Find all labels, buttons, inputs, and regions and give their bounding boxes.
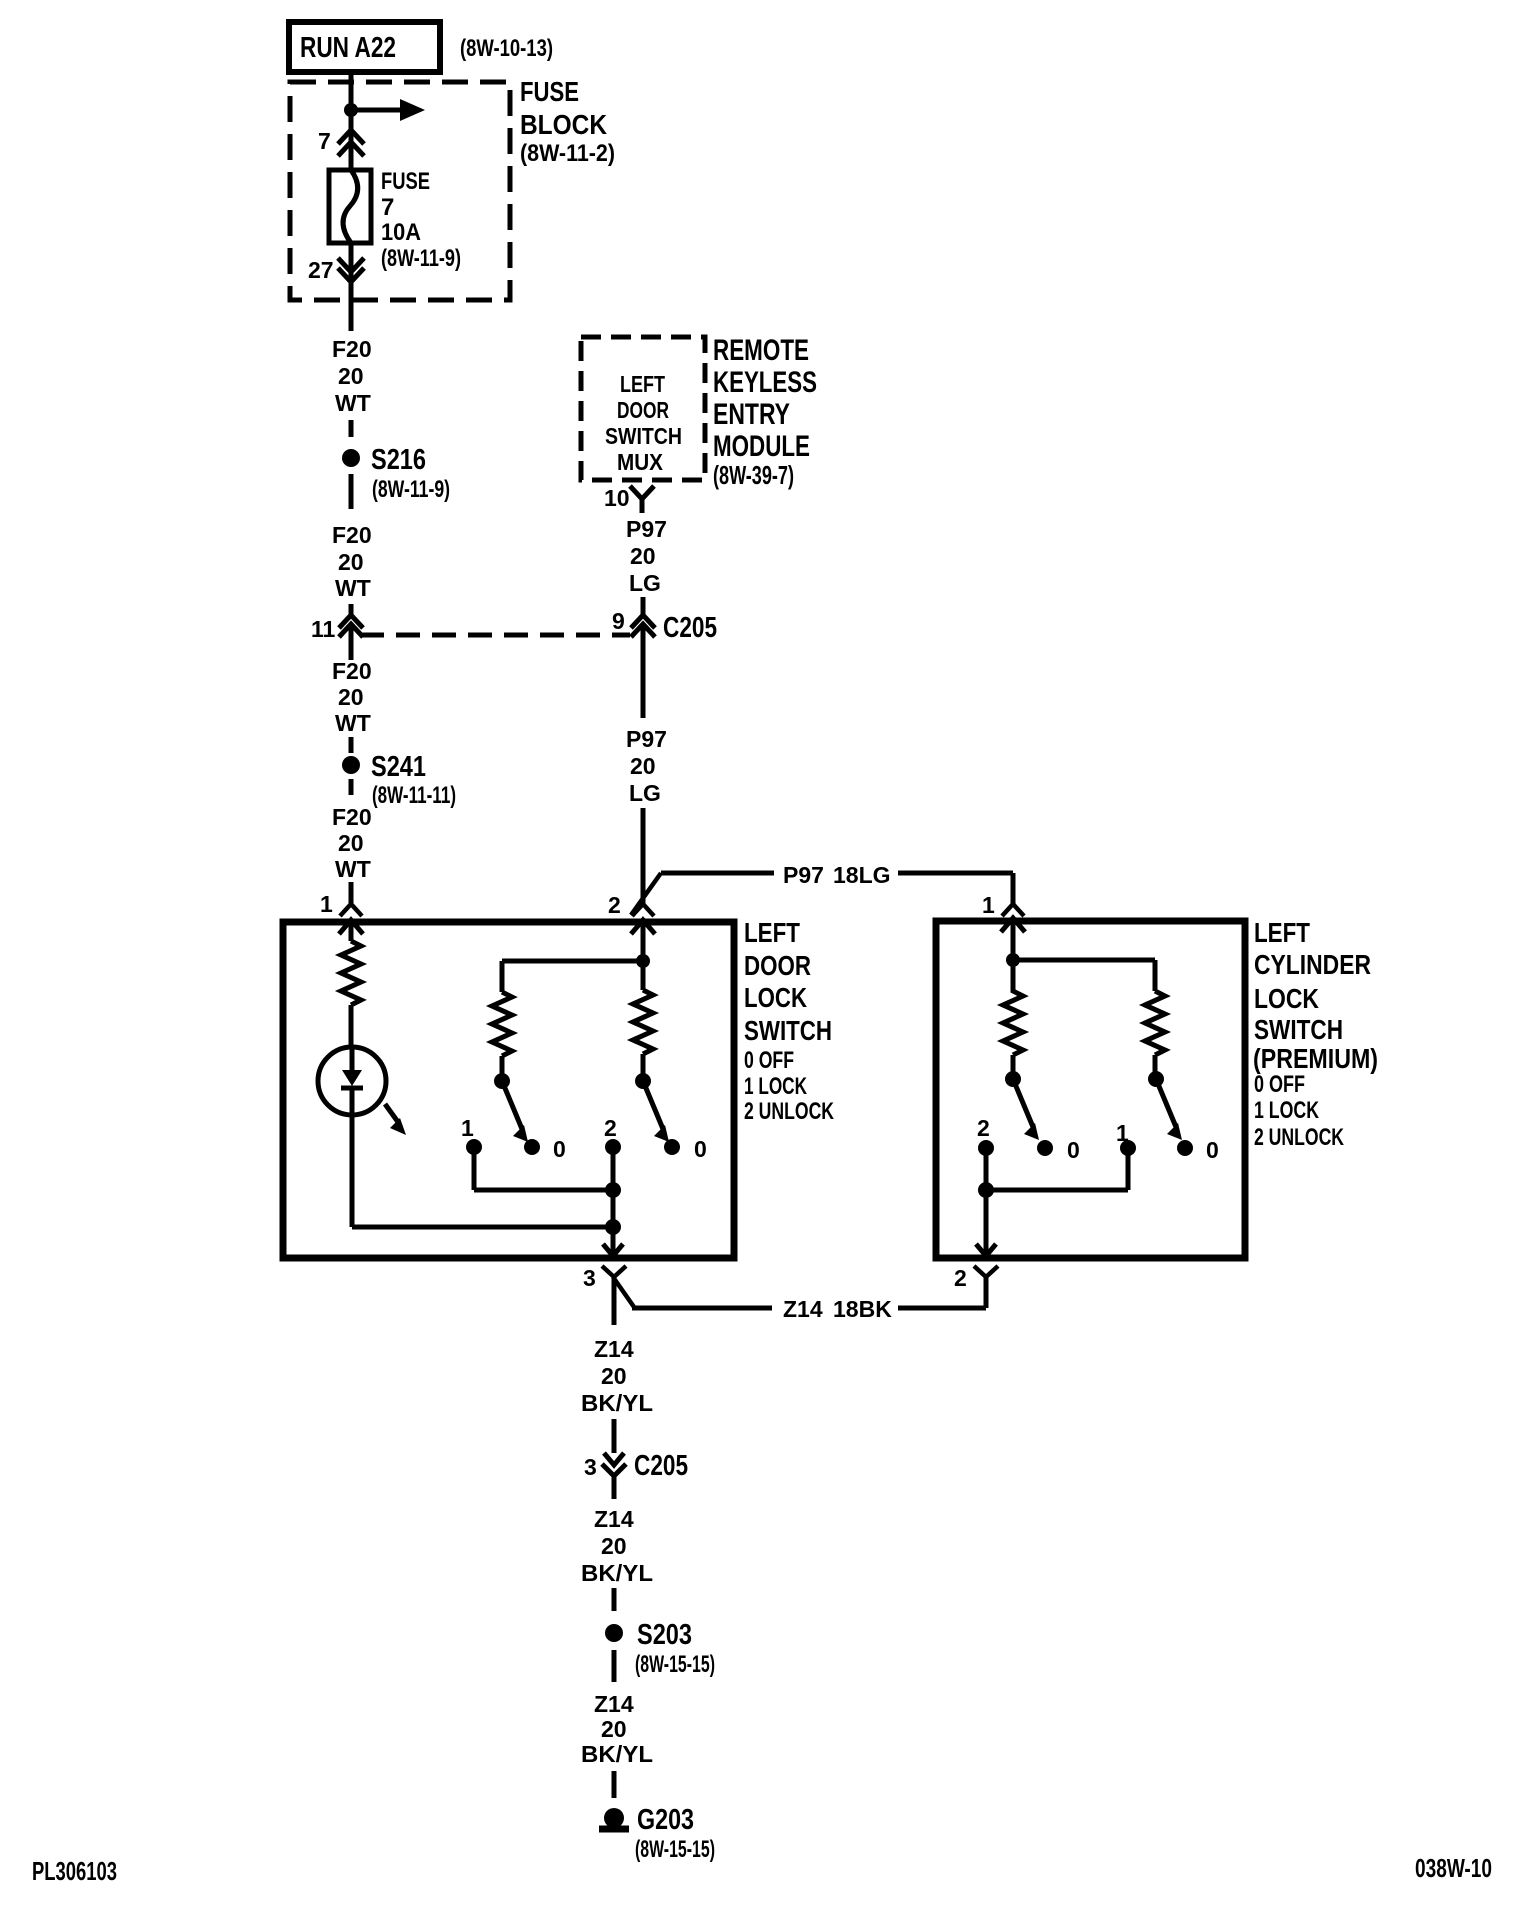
wire F20 20 WT (S216 to C205)	[332, 474, 372, 615]
svg-text:(8W-15-15): (8W-15-15)	[635, 1651, 715, 1678]
right switch wiper	[635, 1073, 669, 1142]
splice S216	[342, 444, 450, 503]
middle switch wiper	[494, 1073, 528, 1142]
terminal 1 entry chevron (cylinder)	[1001, 918, 1025, 960]
left switch label	[744, 917, 834, 1125]
wire P97 18LG branch to cylinder switch	[631, 862, 1013, 915]
svg-text:20: 20	[601, 1716, 627, 1742]
svg-text:KEYLESS: KEYLESS	[713, 366, 817, 399]
svg-text:1: 1	[461, 1115, 474, 1141]
contact 0 (right switch)	[664, 1136, 707, 1162]
module pin 10 fork	[604, 485, 654, 513]
svg-text:PL306103: PL306103	[32, 1856, 117, 1886]
svg-text:BK/YL: BK/YL	[581, 1741, 653, 1767]
right resistor (unlock)	[633, 961, 653, 1074]
svg-text:2 UNLOCK: 2 UNLOCK	[1254, 1124, 1344, 1151]
svg-text:(8W-11-2): (8W-11-2)	[520, 140, 615, 167]
module label REMOTE KEYLESS ENTRY MODULE	[713, 334, 817, 490]
wire resistor to LED	[349, 1005, 354, 1047]
svg-text:7: 7	[381, 194, 394, 221]
svg-text:1: 1	[320, 891, 333, 917]
svg-text:2 UNLOCK: 2 UNLOCK	[744, 1098, 834, 1125]
contact 1	[461, 1115, 482, 1155]
LED indicator	[318, 1047, 406, 1135]
svg-text:038W-10: 038W-10	[1415, 1853, 1492, 1883]
svg-text:0 OFF: 0 OFF	[1254, 1071, 1305, 1098]
svg-text:18BK: 18BK	[833, 1296, 892, 1322]
svg-text:(8W-10-13): (8W-10-13)	[460, 35, 553, 62]
svg-text:BK/YL: BK/YL	[581, 1560, 653, 1586]
svg-text:FUSE: FUSE	[381, 168, 430, 195]
svg-text:(8W-11-9): (8W-11-9)	[372, 476, 450, 503]
svg-text:P97: P97	[783, 862, 824, 888]
svg-text:0 OFF: 0 OFF	[744, 1047, 794, 1074]
bus wiring to terminal 2 (cylinder)	[986, 1148, 1128, 1252]
svg-text:F20: F20	[332, 336, 372, 362]
svg-text:2: 2	[977, 1115, 990, 1141]
svg-text:BK/YL: BK/YL	[581, 1390, 653, 1416]
wire F20 20 WT (C205 to S241)	[332, 658, 372, 753]
svg-text:C205: C205	[634, 1450, 688, 1482]
right switch label	[1253, 917, 1378, 1151]
contact 0 (cylinder left)	[1037, 1137, 1080, 1163]
terminal 1 fork at left switch	[320, 891, 362, 917]
right resistor (cylinder unlock)	[1145, 991, 1165, 1072]
left door lock switch box	[283, 922, 734, 1258]
svg-text:S216: S216	[371, 444, 426, 476]
svg-text:G203: G203	[637, 1804, 694, 1836]
junction node terminal 1 (cylinder)	[1006, 953, 1020, 967]
contact 2 (cylinder)	[977, 1115, 994, 1156]
terminal 1 fork at cylinder switch	[982, 892, 1024, 918]
svg-text:10: 10	[604, 485, 630, 511]
svg-text:RUN A22: RUN A22	[300, 32, 396, 64]
wire P97 20 LG (C205 to switch)	[626, 626, 667, 904]
svg-text:SWITCH: SWITCH	[744, 1015, 832, 1046]
bus wiring to terminal 3	[474, 1147, 613, 1252]
svg-text:2: 2	[608, 892, 621, 918]
svg-text:18LG: 18LG	[833, 862, 891, 888]
svg-text:3: 3	[584, 1454, 597, 1480]
svg-text:20: 20	[601, 1363, 627, 1389]
svg-text:LOCK: LOCK	[744, 982, 807, 1013]
terminal 1 entry chevron	[339, 920, 363, 941]
svg-text:P97: P97	[626, 516, 667, 542]
wire to right resistor (cylinder)	[1013, 960, 1155, 991]
svg-text:11: 11	[311, 616, 336, 642]
svg-text:20: 20	[338, 363, 364, 389]
svg-text:REMOTE: REMOTE	[713, 334, 809, 367]
svg-text:C205: C205	[663, 612, 717, 644]
wire Z14 20 BK/YL (C205 to S203)	[581, 1506, 653, 1611]
contact 1 (cylinder)	[1116, 1120, 1136, 1156]
svg-text:3: 3	[583, 1265, 596, 1291]
svg-text:Z14: Z14	[594, 1336, 634, 1362]
wire Z14 20 BK/YL (S203 to G203)	[581, 1650, 653, 1798]
svg-text:Z14: Z14	[783, 1296, 823, 1322]
fuse 7 10A	[329, 168, 461, 272]
wire RUN A22 to fuse	[349, 72, 354, 170]
junction node in fuse block	[344, 103, 358, 117]
svg-text:(8W-11-11): (8W-11-11)	[372, 782, 456, 809]
connector pin 9 C205	[612, 608, 717, 644]
svg-text:ENTRY: ENTRY	[713, 398, 790, 431]
contact 0 (cylinder right)	[1177, 1137, 1219, 1163]
svg-text:MUX: MUX	[617, 449, 664, 475]
svg-text:20: 20	[601, 1533, 627, 1559]
svg-text:(8W-39-7): (8W-39-7)	[713, 460, 794, 490]
svg-text:1 LOCK: 1 LOCK	[744, 1073, 807, 1100]
power feed box RUN A22	[289, 22, 440, 72]
resistor in LED branch	[341, 941, 361, 1005]
svg-text:Z14: Z14	[594, 1506, 634, 1532]
terminal 2 exit arrowhead (cylinder)	[976, 1244, 996, 1256]
wire fuse to pin 27	[349, 243, 354, 300]
terminal 3 fork below box	[583, 1265, 626, 1325]
svg-text:DOOR: DOOR	[617, 397, 669, 423]
svg-text:2: 2	[954, 1265, 967, 1291]
terminal 3 exit arrowhead	[603, 1244, 623, 1256]
svg-text:20: 20	[338, 830, 364, 856]
terminal 2 entry chevron	[631, 920, 655, 961]
left door switch mux dashed box	[581, 337, 705, 480]
svg-text:P97: P97	[626, 726, 667, 752]
wire F20 20 WT (fuse block to S216)	[332, 300, 372, 437]
svg-text:27: 27	[308, 257, 334, 283]
svg-text:LEFT: LEFT	[1254, 917, 1310, 948]
svg-text:9: 9	[612, 608, 625, 634]
arrow to other fused circuits	[351, 99, 425, 121]
svg-text:S241: S241	[371, 751, 426, 783]
svg-text:WT: WT	[335, 390, 371, 416]
svg-text:WT: WT	[335, 710, 371, 736]
contact 2	[604, 1115, 621, 1155]
svg-text:(PREMIUM): (PREMIUM)	[1253, 1043, 1378, 1074]
junction node bus 2	[605, 1219, 621, 1235]
junction node terminal 2	[636, 954, 650, 968]
connector pin 11 C205	[311, 615, 363, 660]
svg-text:LOCK: LOCK	[1254, 983, 1319, 1014]
svg-text:SWITCH: SWITCH	[1254, 1014, 1343, 1045]
terminal 2 fork at left switch	[608, 892, 654, 918]
svg-text:LEFT: LEFT	[620, 371, 665, 397]
junction node bus (cylinder)	[978, 1182, 994, 1198]
wire Z14 20 BK/YL (to C205)	[581, 1336, 653, 1453]
svg-text:(8W-15-15): (8W-15-15)	[635, 1836, 715, 1863]
svg-text:LG: LG	[629, 570, 661, 596]
svg-text:F20: F20	[332, 658, 372, 684]
left resistor (cylinder lock)	[1003, 960, 1023, 1072]
contact 0 (middle switch)	[524, 1136, 566, 1162]
connector pin 27	[308, 257, 364, 283]
svg-text:LG: LG	[629, 780, 661, 806]
svg-text:20: 20	[630, 753, 656, 779]
svg-text:BLOCK: BLOCK	[520, 109, 607, 140]
svg-text:10A: 10A	[381, 219, 421, 246]
svg-text:DOOR: DOOR	[744, 950, 811, 981]
svg-text:0: 0	[694, 1136, 707, 1162]
svg-text:F20: F20	[332, 522, 372, 548]
svg-text:0: 0	[553, 1136, 566, 1162]
svg-text:SWITCH: SWITCH	[605, 423, 682, 449]
svg-text:WT: WT	[335, 856, 371, 882]
svg-text:(8W-11-9): (8W-11-9)	[381, 245, 461, 272]
svg-text:Z14: Z14	[594, 1691, 634, 1717]
svg-text:20: 20	[338, 684, 364, 710]
dashed wire C205 in-line connector	[360, 633, 630, 638]
svg-text:LEFT: LEFT	[744, 917, 800, 948]
splice S203	[605, 1619, 715, 1678]
fuse block dashed box	[290, 82, 510, 300]
svg-text:FUSE: FUSE	[520, 76, 579, 107]
splice S241	[342, 751, 456, 809]
svg-text:F20: F20	[332, 804, 372, 830]
svg-text:CYLINDER: CYLINDER	[1254, 949, 1371, 980]
left cylinder lock switch box	[936, 921, 1245, 1258]
svg-text:S203: S203	[637, 1619, 692, 1651]
svg-text:7: 7	[318, 128, 331, 154]
connector pin 7	[318, 128, 364, 156]
wire Z14 18BK branch to cylinder switch	[613, 1277, 986, 1322]
terminal 2 fork below box (cylinder)	[954, 1265, 998, 1291]
wire LED to common bus	[352, 1115, 613, 1227]
middle resistor (lock)	[492, 992, 512, 1074]
junction node bus 1	[605, 1182, 621, 1198]
ground G203	[599, 1804, 715, 1863]
svg-text:2: 2	[604, 1115, 617, 1141]
svg-text:0: 0	[1067, 1137, 1080, 1163]
svg-text:1 LOCK: 1 LOCK	[1254, 1097, 1319, 1124]
wire to middle resistor	[502, 961, 643, 992]
connector pin 3 C205	[584, 1450, 688, 1499]
svg-text:WT: WT	[335, 575, 371, 601]
left switch wiper (cylinder)	[1005, 1071, 1039, 1140]
right switch wiper (cylinder)	[1148, 1071, 1182, 1140]
wire P97 20 LG (module to C205)	[626, 516, 667, 614]
fuse block label	[520, 76, 615, 167]
svg-text:MODULE: MODULE	[713, 430, 810, 463]
svg-text:20: 20	[630, 543, 656, 569]
svg-text:20: 20	[338, 549, 364, 575]
wire F20 20 WT (S241 to switch)	[332, 779, 372, 904]
svg-text:1: 1	[982, 892, 995, 918]
svg-text:0: 0	[1206, 1137, 1219, 1163]
